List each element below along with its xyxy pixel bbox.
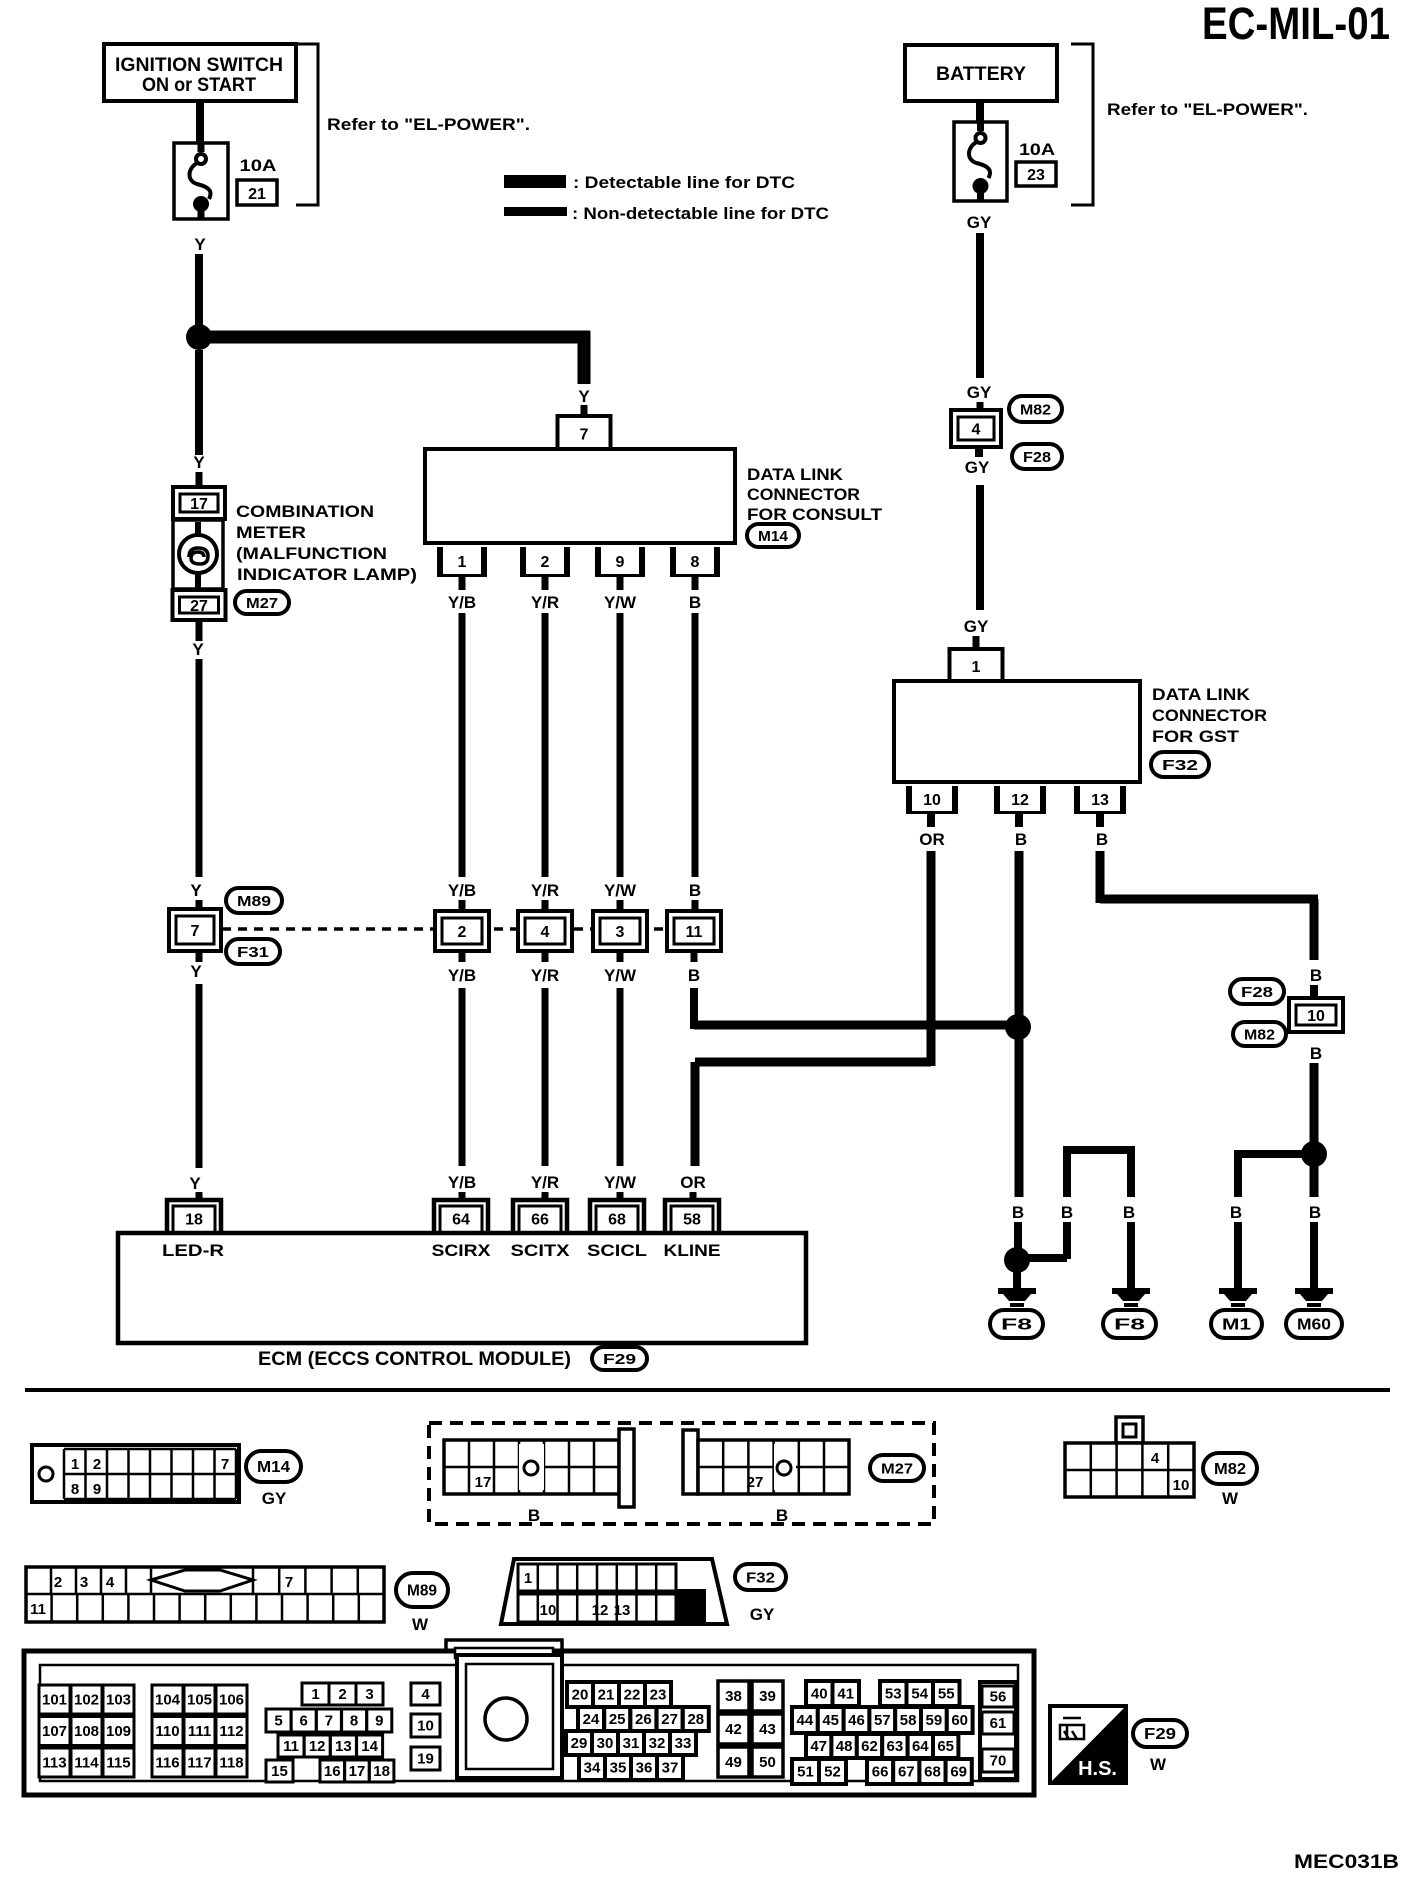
- svg-text:Y/R: Y/R: [531, 881, 559, 900]
- svg-text:48: 48: [836, 1738, 853, 1755]
- svg-text:44: 44: [797, 1712, 814, 1729]
- ECM ECCS control module box: [118, 1233, 806, 1343]
- oval M82 lower: [1233, 1022, 1286, 1046]
- connector M82/F28 pin 4: [951, 410, 1001, 447]
- svg-text:45: 45: [822, 1712, 839, 1729]
- svg-text:12: 12: [1011, 792, 1029, 809]
- separator line: [25, 1388, 1390, 1392]
- svg-text:MEC031B: MEC031B: [1294, 1852, 1399, 1873]
- svg-text:1: 1: [311, 1686, 319, 1703]
- svg-text:(MALFUNCTION: (MALFUNCTION: [236, 544, 387, 563]
- mid connector pin 4: [518, 911, 572, 951]
- svg-text:57: 57: [874, 1712, 891, 1729]
- svg-text:10: 10: [1173, 1477, 1190, 1494]
- svg-text:4: 4: [541, 924, 550, 941]
- svg-text:58: 58: [683, 1212, 701, 1229]
- svg-text:DATA LINK: DATA LINK: [1152, 685, 1251, 704]
- ignition switch box: [104, 44, 296, 101]
- wire Y/B consult to mid connector: [448, 577, 476, 912]
- ground symbol F8 second: [1103, 1288, 1156, 1338]
- wire GY battery branch upper: [967, 213, 992, 410]
- connector face F32 trapezoid: [501, 1559, 727, 1624]
- svg-text:51: 51: [797, 1764, 814, 1781]
- GST pin 12 box: [994, 786, 1046, 814]
- wire Y meter connector to ECM pin 18: [189, 951, 202, 1202]
- fuse 10A no.21: [174, 142, 228, 220]
- svg-text:F32: F32: [746, 1570, 775, 1587]
- svg-text:33: 33: [675, 1735, 692, 1752]
- svg-text:11: 11: [283, 1738, 299, 1755]
- svg-text:116: 116: [155, 1755, 179, 1772]
- svg-text:9: 9: [93, 1481, 101, 1498]
- svg-text:1: 1: [972, 659, 981, 676]
- wire B from connector 11 to node B: [688, 951, 1012, 1030]
- consult pin 1 box: [437, 547, 487, 577]
- svg-text:GY: GY: [964, 617, 989, 636]
- svg-text:15: 15: [271, 1763, 288, 1780]
- svg-text:39: 39: [759, 1688, 776, 1705]
- dashed harness line M89-F31: [222, 927, 670, 931]
- svg-text:M14: M14: [758, 528, 789, 545]
- svg-text:10: 10: [417, 1718, 434, 1735]
- wire battery to fuse: [976, 101, 984, 122]
- svg-text:B: B: [1096, 830, 1108, 849]
- svg-text:118: 118: [219, 1755, 243, 1772]
- svg-text:37: 37: [662, 1760, 679, 1777]
- svg-text:7: 7: [580, 427, 589, 444]
- H.S. symbol: [1050, 1706, 1126, 1783]
- svg-text:11: 11: [686, 924, 703, 941]
- svg-text:27: 27: [747, 1474, 764, 1491]
- svg-text:8: 8: [350, 1713, 358, 1730]
- document number MEC031B: [1294, 1852, 1399, 1873]
- svg-text:2: 2: [54, 1574, 62, 1591]
- svg-text:H.S.: H.S.: [1078, 1758, 1117, 1780]
- wire Y/R mid connector to ECM: [531, 951, 559, 1202]
- wire Y/R consult to mid connector: [531, 577, 559, 912]
- svg-text:ON or START: ON or START: [142, 75, 256, 96]
- ECM pin 58 box: [665, 1200, 719, 1233]
- svg-text:M27: M27: [881, 1461, 913, 1478]
- svg-text:M82: M82: [1244, 1027, 1275, 1044]
- svg-text:53: 53: [885, 1686, 902, 1703]
- svg-text:13: 13: [1091, 792, 1109, 809]
- svg-text:36: 36: [636, 1760, 653, 1777]
- svg-text:18: 18: [373, 1763, 390, 1780]
- title EC-MIL-01: [1202, 0, 1390, 49]
- consult pin 9 box: [595, 547, 645, 577]
- svg-text:115: 115: [106, 1755, 130, 1772]
- combination meter label M27: [235, 502, 417, 614]
- svg-text:27: 27: [190, 598, 208, 615]
- svg-text:Refer to "EL-POWER".: Refer to "EL-POWER".: [327, 115, 530, 134]
- svg-text:LED-R: LED-R: [162, 1241, 224, 1260]
- wire meter to connector M89-F31: [190, 620, 202, 912]
- svg-text:W: W: [1222, 1489, 1239, 1508]
- svg-text:OR: OR: [680, 1173, 706, 1192]
- wire GY to GST connector: [964, 447, 990, 649]
- svg-text:3: 3: [365, 1686, 373, 1703]
- svg-text:SCIRX: SCIRX: [432, 1241, 492, 1260]
- consult connector label M14: [747, 465, 883, 547]
- svg-text:30: 30: [597, 1735, 614, 1752]
- ECM face cells 1-19: [266, 1683, 440, 1782]
- svg-text:21: 21: [248, 186, 266, 203]
- svg-text:27: 27: [661, 1711, 678, 1728]
- svg-text:CONNECTOR: CONNECTOR: [747, 485, 860, 504]
- svg-text:10A: 10A: [1019, 140, 1055, 159]
- ECM face center keyway: [457, 1655, 562, 1778]
- svg-text:7: 7: [285, 1574, 293, 1591]
- svg-text:B: B: [776, 1506, 788, 1525]
- svg-text:58: 58: [900, 1712, 917, 1729]
- svg-text:B: B: [689, 881, 701, 900]
- oval M89 face: [396, 1573, 448, 1634]
- svg-text:IGNITION SWITCH: IGNITION SWITCH: [115, 55, 283, 76]
- meter pin 27 box: [173, 590, 226, 620]
- svg-text:SCITX: SCITX: [511, 1241, 571, 1260]
- svg-text:67: 67: [898, 1764, 915, 1781]
- svg-text:107: 107: [42, 1723, 67, 1740]
- svg-text:Y: Y: [190, 962, 202, 981]
- svg-text:49: 49: [725, 1754, 742, 1771]
- svg-text:DATA LINK: DATA LINK: [747, 465, 844, 484]
- svg-text:24: 24: [583, 1711, 600, 1728]
- svg-text:46: 46: [848, 1712, 865, 1729]
- svg-text:12: 12: [309, 1738, 326, 1755]
- svg-text:F8: F8: [1001, 1317, 1032, 1334]
- svg-text:GY: GY: [967, 383, 992, 402]
- connector face M14: [32, 1445, 239, 1502]
- oval M82 face: [1203, 1453, 1257, 1508]
- svg-text:B: B: [1123, 1203, 1135, 1222]
- svg-text:52: 52: [824, 1764, 841, 1781]
- svg-text:F31: F31: [237, 944, 269, 961]
- svg-text:M1: M1: [1222, 1317, 1251, 1334]
- svg-text:28: 28: [687, 1711, 704, 1728]
- svg-text:10: 10: [1307, 1008, 1325, 1025]
- svg-text:16: 16: [324, 1763, 341, 1780]
- consult pin 8 box: [670, 547, 720, 577]
- svg-text:66: 66: [872, 1764, 889, 1781]
- svg-text:M14: M14: [257, 1459, 290, 1476]
- svg-text:Y/B: Y/B: [448, 1173, 476, 1192]
- svg-text:104: 104: [155, 1692, 181, 1709]
- svg-text:11: 11: [30, 1601, 46, 1618]
- ECM caption and F29 oval: [258, 1347, 647, 1370]
- svg-text:5: 5: [274, 1713, 282, 1730]
- svg-text:10: 10: [923, 792, 941, 809]
- junction node above ground F8: [1004, 1247, 1030, 1273]
- svg-text:B: B: [1310, 1044, 1322, 1063]
- svg-text:F8: F8: [1114, 1317, 1145, 1334]
- svg-text:3: 3: [616, 924, 625, 941]
- svg-text:GY: GY: [965, 458, 990, 477]
- ECM connector face outline: [24, 1640, 1034, 1795]
- connector face M27 dashed box: [429, 1423, 934, 1524]
- svg-text:METER: METER: [236, 523, 306, 542]
- wire Y/W consult to mid connector: [604, 577, 637, 912]
- svg-text:SCICL: SCICL: [587, 1241, 647, 1260]
- svg-text:M60: M60: [1297, 1317, 1331, 1334]
- svg-text:6: 6: [300, 1713, 308, 1730]
- ECM face cells 40-69: [792, 1681, 973, 1784]
- svg-text:Y/B: Y/B: [448, 881, 476, 900]
- svg-text:10: 10: [540, 1602, 557, 1619]
- svg-text:29: 29: [571, 1735, 588, 1752]
- svg-text:Y: Y: [192, 640, 204, 659]
- svg-text:4: 4: [106, 1574, 115, 1591]
- svg-text:43: 43: [759, 1721, 776, 1738]
- svg-text:F28: F28: [1241, 984, 1273, 1001]
- wire OR from GST pin 10 to ECM KLINE: [680, 813, 945, 1202]
- svg-text:50: 50: [759, 1754, 776, 1771]
- wire Y/B mid connector to ECM: [448, 951, 476, 1202]
- svg-text:Y/R: Y/R: [531, 1173, 559, 1192]
- svg-text:14: 14: [361, 1738, 378, 1755]
- wire stub into pin 17: [196, 472, 203, 489]
- oval M89: [226, 888, 282, 913]
- svg-text:105: 105: [187, 1692, 212, 1709]
- ECM face cells 104-118: [152, 1685, 247, 1777]
- svg-text:4: 4: [1151, 1450, 1160, 1467]
- svg-text:38: 38: [725, 1688, 742, 1705]
- svg-text:22: 22: [624, 1687, 641, 1704]
- svg-text:108: 108: [74, 1723, 99, 1740]
- svg-text:W: W: [412, 1615, 429, 1634]
- svg-text:17: 17: [190, 496, 208, 513]
- svg-text:117: 117: [187, 1755, 211, 1772]
- svg-text:M89: M89: [237, 893, 271, 910]
- svg-text:13: 13: [335, 1738, 352, 1755]
- svg-text:1: 1: [524, 1570, 532, 1587]
- svg-text:59: 59: [926, 1712, 943, 1729]
- svg-text:1: 1: [458, 554, 467, 571]
- legend detectable line: [504, 173, 795, 192]
- svg-text:8: 8: [71, 1481, 79, 1498]
- svg-text:61: 61: [990, 1715, 1007, 1732]
- svg-text:Y/R: Y/R: [531, 593, 559, 612]
- svg-text:B: B: [1061, 1203, 1073, 1222]
- fuse rating 10A 21: [237, 156, 277, 205]
- junction node right column: [1301, 1141, 1327, 1167]
- svg-text:W: W: [1150, 1755, 1167, 1774]
- M27 left half grid: [444, 1429, 634, 1525]
- wire B pin10 to ground M60: [1309, 1044, 1322, 1288]
- svg-text:B: B: [1310, 966, 1322, 985]
- GST pin 13 box: [1074, 786, 1126, 814]
- mid connector pin 2: [435, 911, 489, 951]
- oval F32 face: [735, 1564, 786, 1624]
- svg-text:55: 55: [938, 1686, 955, 1703]
- oval F31: [226, 939, 280, 964]
- svg-text:65: 65: [937, 1738, 954, 1755]
- svg-text:Y/W: Y/W: [604, 593, 637, 612]
- svg-text:9: 9: [616, 554, 625, 571]
- svg-text:OR: OR: [919, 830, 945, 849]
- svg-text:23: 23: [1027, 167, 1045, 184]
- svg-text:25: 25: [609, 1711, 626, 1728]
- svg-text:32: 32: [649, 1735, 666, 1752]
- svg-text:111: 111: [188, 1723, 211, 1740]
- svg-text:B: B: [1012, 1203, 1024, 1222]
- oval M27 face: [870, 1455, 924, 1481]
- svg-text:18: 18: [185, 1212, 203, 1229]
- svg-text:101: 101: [42, 1692, 67, 1709]
- wire B from GST pin 12 to ground F8: [1012, 813, 1027, 1250]
- svg-text:: Non-detectable line for DTC: : Non-detectable line for DTC: [572, 204, 829, 223]
- oval F29 face: [1133, 1720, 1187, 1774]
- svg-text:B: B: [688, 966, 700, 985]
- svg-text:110: 110: [155, 1723, 179, 1740]
- wire junction to consult branch: [205, 331, 591, 385]
- svg-text:FOR GST: FOR GST: [1152, 727, 1240, 746]
- svg-text:Y/R: Y/R: [531, 966, 559, 985]
- svg-text:Y: Y: [578, 387, 590, 406]
- oval M14 face: [246, 1451, 301, 1508]
- wire junction to meter: [195, 350, 203, 455]
- battery box: [905, 45, 1057, 101]
- svg-text:4: 4: [972, 422, 981, 439]
- legend non-detectable line: [504, 204, 829, 223]
- ECM pin 18 box: [167, 1200, 221, 1233]
- svg-text:GY: GY: [262, 1489, 287, 1508]
- svg-text:7: 7: [325, 1713, 333, 1730]
- svg-text:Y: Y: [189, 1174, 201, 1193]
- consult pin 2 box: [520, 547, 570, 577]
- junction node A: [186, 324, 212, 350]
- bridge wire to ground M1: [1230, 1150, 1310, 1288]
- svg-text:Y: Y: [194, 235, 206, 254]
- svg-text:102: 102: [74, 1692, 99, 1709]
- GST pin 1 box: [950, 649, 1003, 681]
- ECM pin name labels: [162, 1241, 721, 1260]
- svg-text:F29: F29: [603, 1351, 636, 1368]
- svg-text:GY: GY: [750, 1605, 775, 1624]
- svg-text:CONNECTOR: CONNECTOR: [1152, 706, 1267, 725]
- wire B consult to mid connector: [689, 577, 701, 912]
- bridge wire to second ground F8: [1017, 1146, 1135, 1288]
- svg-text:56: 56: [990, 1689, 1007, 1706]
- ground symbol M1: [1211, 1288, 1262, 1338]
- svg-text:35: 35: [610, 1760, 627, 1777]
- svg-text:68: 68: [608, 1212, 626, 1229]
- svg-text:9: 9: [375, 1713, 383, 1730]
- svg-text:Y/B: Y/B: [448, 966, 476, 985]
- svg-text:114: 114: [74, 1755, 99, 1772]
- svg-text:21: 21: [598, 1687, 615, 1704]
- svg-text:7: 7: [191, 923, 200, 940]
- svg-text:113: 113: [42, 1755, 66, 1772]
- fuse rating 10A 23: [1016, 140, 1056, 186]
- svg-text:B: B: [528, 1506, 540, 1525]
- svg-text:1: 1: [71, 1456, 79, 1473]
- consult pin 7 box: [558, 416, 611, 449]
- svg-text:2: 2: [338, 1686, 346, 1703]
- svg-text:68: 68: [924, 1764, 941, 1781]
- ground symbol F8 first: [990, 1270, 1043, 1338]
- ECM face cells 38-50: [718, 1681, 783, 1777]
- ECM face cells 20-37: [566, 1682, 709, 1780]
- oval F28 lower: [1230, 979, 1284, 1004]
- ECM face cells 101-115: [39, 1685, 134, 1777]
- svg-text:COMBINATION: COMBINATION: [236, 502, 374, 521]
- svg-text:26: 26: [635, 1711, 652, 1728]
- svg-text:69: 69: [950, 1764, 967, 1781]
- svg-text:17: 17: [349, 1763, 366, 1780]
- svg-text:112: 112: [219, 1723, 243, 1740]
- svg-text:66: 66: [531, 1212, 549, 1229]
- bracket left refer: [296, 44, 530, 205]
- svg-text:KLINE: KLINE: [664, 1241, 721, 1260]
- data link connector for GST box: [894, 681, 1140, 782]
- svg-text:ECM (ECCS CONTROL MODULE): ECM (ECCS CONTROL MODULE): [258, 1349, 571, 1370]
- ECM pin 64 box: [434, 1200, 488, 1233]
- svg-text:B: B: [1230, 1203, 1242, 1222]
- svg-text:FOR CONSULT: FOR CONSULT: [747, 505, 883, 524]
- wire ignition to fuse: [196, 101, 204, 143]
- connector F28/M82 pin 10: [1289, 998, 1343, 1032]
- oval M82 upper: [1009, 396, 1062, 422]
- svg-text:4: 4: [421, 1686, 430, 1703]
- svg-text:2: 2: [541, 554, 550, 571]
- oval F28 upper: [1012, 444, 1062, 469]
- svg-text:2: 2: [93, 1456, 101, 1473]
- svg-text:M27: M27: [246, 595, 278, 612]
- data link connector for consult box: [425, 449, 735, 543]
- svg-text:Y: Y: [190, 881, 202, 900]
- svg-text:EC-MIL-01: EC-MIL-01: [1202, 0, 1390, 49]
- connector M89/F31 pin 7: [169, 909, 221, 951]
- wire stub into pin 7: [581, 405, 588, 416]
- fuse 10A no.23: [954, 121, 1007, 202]
- svg-text:17: 17: [475, 1474, 492, 1491]
- svg-text:106: 106: [219, 1692, 244, 1709]
- svg-text:64: 64: [912, 1738, 929, 1755]
- svg-text:31: 31: [623, 1735, 640, 1752]
- combination meter MIL lamp: [173, 520, 223, 589]
- ECM pin 68 box: [590, 1200, 644, 1233]
- svg-text:109: 109: [106, 1723, 131, 1740]
- wire B from GST pin 13 to right column: [1096, 813, 1323, 998]
- svg-text:M89: M89: [407, 1583, 437, 1600]
- connector face M82: [1065, 1417, 1194, 1497]
- svg-text:70: 70: [990, 1753, 1007, 1770]
- svg-text:2: 2: [458, 924, 467, 941]
- ECM pin 66 box: [513, 1200, 567, 1233]
- svg-text:F32: F32: [1162, 757, 1198, 774]
- svg-text:B: B: [1309, 1203, 1321, 1222]
- svg-text:Y/W: Y/W: [604, 881, 637, 900]
- svg-text:: Detectable line for DTC: : Detectable line for DTC: [573, 173, 795, 192]
- ground symbol M60: [1286, 1288, 1342, 1338]
- meter pin 17 box: [173, 487, 225, 519]
- svg-text:INDICATOR LAMP): INDICATOR LAMP): [237, 565, 417, 584]
- svg-text:7: 7: [221, 1456, 229, 1473]
- svg-text:47: 47: [810, 1738, 827, 1755]
- junction node on B wire: [1005, 1014, 1031, 1040]
- svg-text:12: 12: [592, 1602, 609, 1619]
- svg-text:Y/B: Y/B: [448, 593, 476, 612]
- M27 right half grid: [683, 1430, 849, 1525]
- svg-text:Refer to "EL-POWER".: Refer to "EL-POWER".: [1107, 100, 1308, 119]
- svg-text:M82: M82: [1214, 1461, 1246, 1478]
- svg-text:3: 3: [80, 1574, 88, 1591]
- svg-text:B: B: [1015, 830, 1027, 849]
- svg-text:B: B: [689, 593, 701, 612]
- svg-text:BATTERY: BATTERY: [936, 64, 1026, 85]
- svg-text:34: 34: [584, 1760, 601, 1777]
